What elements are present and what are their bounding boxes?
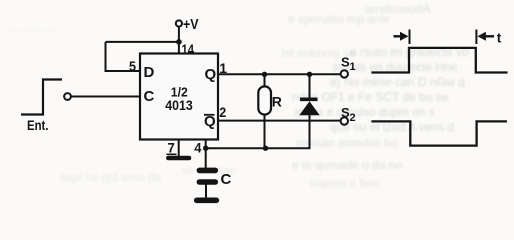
svg-text:C: C bbox=[221, 171, 232, 188]
wire capacitor to ground bbox=[205, 185, 207, 199]
terminal S1 bbox=[341, 70, 348, 77]
svg-text:1: 1 bbox=[350, 61, 356, 73]
terminal S2 bbox=[341, 117, 348, 124]
diode D1 bbox=[309, 74, 311, 98]
junction dot R top bbox=[262, 72, 267, 77]
+V terminal bbox=[176, 20, 182, 26]
svg-text:4013: 4013 bbox=[165, 97, 193, 113]
svg-text:7: 7 bbox=[168, 140, 175, 156]
junction dot R bottom bbox=[263, 146, 268, 151]
arrow left bbox=[484, 35, 495, 37]
wire pin 4 down to capacitor bbox=[205, 140, 207, 169]
wire pin 14 bbox=[178, 42, 180, 54]
waveform S1 pulse bbox=[371, 48, 507, 73]
wire Q to S1 bbox=[218, 73, 341, 75]
svg-text:C: C bbox=[144, 88, 155, 105]
input step waveform symbol bbox=[21, 80, 62, 115]
wire +V branch horizontal bbox=[106, 41, 179, 43]
svg-text:2: 2 bbox=[350, 112, 356, 124]
svg-text:t: t bbox=[497, 31, 502, 46]
wire bottom rail pin4 node bbox=[206, 147, 311, 149]
junction dot diode top bbox=[307, 72, 312, 77]
tick mark left bbox=[409, 30, 411, 45]
input terminal circle bbox=[64, 93, 71, 100]
svg-text:5: 5 bbox=[129, 58, 136, 74]
svg-text:D: D bbox=[144, 64, 155, 81]
svg-text:2: 2 bbox=[219, 104, 226, 120]
capacitor C bbox=[199, 168, 215, 174]
op-amp U1: flip-flop 1/2 4013 box bbox=[140, 54, 218, 140]
faint print bleed-through background texture bbox=[8, 22, 59, 36]
svg-text:Ent.: Ent. bbox=[27, 117, 49, 133]
arrow right bbox=[394, 35, 403, 37]
wire +V branch vertical to D bbox=[105, 42, 107, 71]
tick mark right bbox=[475, 30, 477, 45]
wire input to clock pin C bbox=[71, 96, 140, 98]
svg-text:R: R bbox=[272, 94, 282, 110]
waveform S2 inverted pulse bbox=[371, 121, 507, 145]
svg-text:Q: Q bbox=[205, 66, 217, 83]
wire pin 7 bbox=[178, 140, 180, 157]
wire Q-bar to S2 bbox=[218, 120, 341, 122]
ground pin 7 bbox=[168, 156, 189, 161]
ground capacitor bbox=[197, 198, 217, 204]
wire D stub pin 5 bbox=[105, 70, 141, 72]
resistor R bbox=[264, 74, 266, 87]
wire +V stub bbox=[178, 27, 180, 42]
svg-text:4: 4 bbox=[194, 139, 201, 155]
svg-text:+V: +V bbox=[183, 16, 199, 33]
junction dot at pin 14 bbox=[176, 39, 182, 45]
junction dot pin 4 bbox=[203, 146, 208, 151]
